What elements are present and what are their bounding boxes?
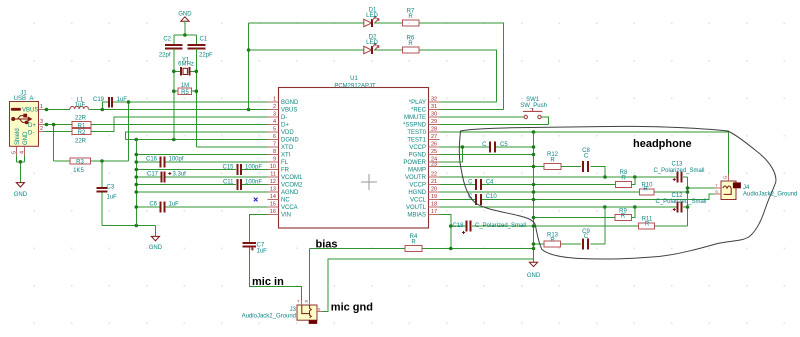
svg-text:D+: D+ bbox=[28, 123, 36, 129]
junction R3 C3 bbox=[100, 159, 104, 163]
wire LED feed vertical bbox=[248, 23, 250, 110]
junction C12 tee bbox=[686, 205, 690, 209]
resistor R5 1M bbox=[174, 83, 197, 96]
svg-text:1uF: 1uF bbox=[107, 195, 118, 201]
svg-text:VCCA: VCCA bbox=[281, 205, 298, 211]
svg-text:J4: J4 bbox=[743, 185, 750, 191]
svg-text:1: 1 bbox=[40, 104, 43, 110]
connector J4 AudioJack2_Ground bbox=[715, 175, 798, 200]
svg-text:22pF: 22pF bbox=[199, 52, 213, 58]
svg-text:BGND: BGND bbox=[281, 100, 299, 106]
capacitor C10 bbox=[468, 194, 497, 205]
svg-text:headphone: headphone bbox=[633, 138, 692, 150]
svg-text:R: R bbox=[621, 213, 626, 219]
svg-text:100pf: 100pf bbox=[169, 157, 184, 163]
svg-text:PCM2912APJT: PCM2912APJT bbox=[334, 84, 376, 90]
svg-text:1: 1 bbox=[273, 97, 276, 103]
wire bottom left gnd row bbox=[102, 226, 155, 237]
svg-text:1K5: 1K5 bbox=[73, 168, 84, 174]
wire VCCP2 C4 R8 row bbox=[440, 177, 635, 185]
svg-text:NC: NC bbox=[281, 198, 290, 204]
svg-text:R: R bbox=[643, 187, 648, 193]
junction TEST0 rail bbox=[532, 130, 536, 134]
resistor R3 1K5 bbox=[70, 158, 91, 174]
capacitor C16 100pf bbox=[146, 157, 184, 168]
svg-text:R: R bbox=[550, 158, 555, 164]
wire FL row C16 bbox=[136, 161, 267, 163]
svg-text:R2: R2 bbox=[78, 130, 86, 136]
svg-text:C_Polarized_Small: C_Polarized_Small bbox=[653, 168, 704, 174]
junction gnd row rail bbox=[135, 224, 139, 228]
J1 USB trident icon bbox=[12, 114, 32, 124]
svg-text:6: 6 bbox=[273, 134, 276, 140]
svg-text:27: 27 bbox=[431, 134, 437, 140]
wire crystal verticals bbox=[174, 48, 268, 147]
wire VBUS row bbox=[44, 109, 267, 111]
capacitor C2 22pf bbox=[159, 37, 183, 59]
ground symbol right bbox=[527, 262, 541, 279]
wire J1 ground join bbox=[17, 156, 25, 183]
wire right ground rail bbox=[533, 132, 535, 262]
svg-text:9: 9 bbox=[273, 157, 276, 163]
junction D+ branch bbox=[52, 123, 56, 127]
svg-text:22R: 22R bbox=[75, 115, 87, 121]
wire R3 net bbox=[54, 160, 129, 162]
svg-text:D+: D+ bbox=[281, 123, 289, 129]
svg-text:18: 18 bbox=[431, 202, 437, 208]
svg-text:FL: FL bbox=[281, 160, 289, 166]
svg-text:TEST1: TEST1 bbox=[407, 138, 426, 144]
svg-text:5: 5 bbox=[273, 127, 276, 133]
wire D1 row bbox=[249, 23, 504, 110]
junction gnd cap row bbox=[183, 33, 187, 37]
svg-text:mic in: mic in bbox=[252, 276, 284, 288]
svg-text:VDD: VDD bbox=[281, 130, 294, 136]
svg-text:MAMP: MAMP bbox=[408, 168, 426, 174]
svg-text:GND: GND bbox=[149, 245, 163, 251]
resistor R2 22R bbox=[72, 128, 91, 144]
resistor R11 bbox=[639, 216, 655, 229]
svg-text:3: 3 bbox=[40, 119, 43, 125]
svg-text:C1: C1 bbox=[200, 37, 208, 43]
junction bias rail bbox=[532, 247, 536, 251]
svg-text:MBIAS: MBIAS bbox=[407, 213, 426, 219]
wire MBIAS down bbox=[440, 215, 451, 249]
junction C18 left bbox=[449, 224, 453, 228]
U1 left pin stubs 1-16 bbox=[268, 102, 279, 215]
junction LED D2 tee bbox=[247, 48, 251, 52]
svg-text:17: 17 bbox=[431, 209, 437, 215]
junction C10 rail bbox=[532, 198, 536, 202]
svg-text:C_Polarized_Small: C_Polarized_Small bbox=[655, 199, 706, 205]
svg-text:J3: J3 bbox=[290, 307, 297, 313]
LED D1 bbox=[364, 7, 379, 26]
svg-text:XTI: XTI bbox=[281, 153, 291, 159]
svg-text:HGND: HGND bbox=[408, 190, 426, 196]
ground symbol crystal top bbox=[178, 12, 192, 22]
svg-text:C5: C5 bbox=[500, 142, 508, 148]
svg-text:32: 32 bbox=[431, 97, 437, 103]
wire PGND row bbox=[440, 154, 534, 156]
wire C18 R11 row bbox=[451, 225, 688, 227]
svg-text:16: 16 bbox=[270, 209, 276, 215]
wire BGND row bbox=[102, 102, 267, 161]
svg-text:TEST0: TEST0 bbox=[407, 130, 426, 136]
svg-text:AGND: AGND bbox=[281, 190, 299, 196]
svg-text:8: 8 bbox=[273, 149, 276, 155]
svg-text:30: 30 bbox=[431, 112, 437, 118]
svg-text:C3: C3 bbox=[107, 185, 115, 191]
svg-text:C16: C16 bbox=[146, 157, 158, 163]
svg-text:*PLAY: *PLAY bbox=[409, 100, 426, 106]
capacitor C4 bbox=[468, 179, 494, 190]
svg-text:2: 2 bbox=[40, 126, 43, 132]
resistor R6 bbox=[402, 35, 419, 53]
svg-text:AudioJack2_Ground: AudioJack2_Ground bbox=[242, 313, 296, 319]
junction VBUS C19 branch bbox=[101, 108, 105, 112]
svg-text:R: R bbox=[621, 176, 626, 182]
capacitor C13 polarized bbox=[653, 161, 704, 182]
wire D- row bbox=[44, 117, 267, 132]
junction VBUS LED rail bbox=[247, 108, 251, 112]
svg-text:SW_Push: SW_Push bbox=[520, 103, 547, 109]
svg-text:S: S bbox=[318, 307, 321, 312]
svg-text:MMUTE: MMUTE bbox=[404, 115, 426, 121]
capacitor C1 22pF bbox=[188, 37, 214, 59]
svg-text:14: 14 bbox=[270, 194, 276, 200]
connector J1 USB_A body bbox=[10, 91, 39, 147]
svg-text:VCCP: VCCP bbox=[409, 145, 426, 151]
junction T tee bbox=[686, 186, 690, 190]
junction R13 rail bbox=[532, 242, 536, 246]
svg-text:U1: U1 bbox=[350, 76, 358, 82]
capacitor C17 3.3uf polarized bbox=[147, 172, 186, 183]
svg-text:S: S bbox=[715, 189, 718, 194]
no connect X pin14 bbox=[254, 198, 258, 202]
svg-text:VCCP: VCCP bbox=[409, 183, 426, 189]
resistor R1 22R bbox=[72, 115, 91, 129]
svg-text:1uF: 1uF bbox=[117, 97, 128, 103]
svg-text:C: C bbox=[584, 154, 589, 160]
svg-text:1M: 1M bbox=[181, 83, 189, 89]
capacitor C18 polarized bbox=[452, 221, 526, 234]
svg-text:C19: C19 bbox=[93, 97, 105, 103]
junction C4 rail bbox=[532, 183, 536, 187]
svg-text:C18: C18 bbox=[452, 223, 464, 229]
svg-text:R: R bbox=[305, 298, 308, 303]
wire TEST0 row to jack G bbox=[440, 132, 729, 175]
svg-text:VCCL: VCCL bbox=[410, 198, 427, 204]
svg-text:100pF: 100pF bbox=[245, 164, 262, 170]
wire VCCP row C5 bbox=[440, 147, 534, 162]
wire mic gnd bbox=[323, 259, 534, 312]
IC U1 body PCM2912APJT bbox=[279, 76, 429, 228]
svg-text:R: R bbox=[550, 237, 555, 243]
svg-text:29: 29 bbox=[431, 119, 437, 125]
U1 right pin numbers bbox=[431, 97, 437, 216]
capacitor C19 bbox=[93, 97, 127, 108]
junction BGND branch bbox=[127, 100, 131, 104]
svg-text:31: 31 bbox=[431, 104, 437, 110]
LED D2 bbox=[364, 34, 379, 53]
junction VOUTL C9 bbox=[603, 205, 607, 209]
svg-text:12: 12 bbox=[270, 179, 276, 185]
wire VCCL C10 row to sleeve bbox=[440, 194, 715, 200]
wire HGND R10 row bbox=[440, 191, 688, 193]
svg-text:C2: C2 bbox=[163, 37, 171, 43]
wire D2 row bbox=[249, 50, 497, 102]
svg-text:VCOM1: VCOM1 bbox=[281, 175, 303, 181]
svg-text:4: 4 bbox=[273, 119, 276, 125]
wire VCOM1 row C17 bbox=[136, 176, 267, 178]
svg-text:21: 21 bbox=[431, 179, 437, 185]
svg-text:LED: LED bbox=[366, 40, 378, 46]
svg-text:G: G bbox=[723, 175, 728, 179]
wire XTI row bbox=[136, 154, 267, 156]
svg-text:7: 7 bbox=[273, 142, 276, 148]
capacitor C9 bbox=[582, 229, 590, 250]
svg-text:R: R bbox=[408, 14, 413, 20]
junction DGND rail bbox=[135, 138, 139, 142]
U1 right pin names bbox=[403, 100, 427, 219]
junction DGND crystal bbox=[172, 138, 176, 142]
wire T S common vertical bbox=[688, 177, 715, 226]
svg-text:GND: GND bbox=[23, 131, 29, 145]
svg-text:C10: C10 bbox=[486, 194, 498, 200]
svg-text:C: C bbox=[468, 179, 473, 185]
svg-text:PGND: PGND bbox=[409, 153, 427, 159]
wire FR row C15 bbox=[136, 169, 267, 171]
wire left decoupling rail bbox=[135, 140, 137, 226]
J1 right pin stubs bbox=[39, 110, 45, 132]
svg-text:C: C bbox=[584, 234, 589, 240]
junction R5 left bbox=[172, 89, 176, 93]
junction C18 rail bbox=[532, 224, 536, 228]
svg-text:R: R bbox=[408, 41, 413, 47]
junction D+ at pin bbox=[45, 123, 49, 127]
junction R10 tee bbox=[686, 190, 690, 194]
J1 VBUS bar icon bbox=[11, 108, 21, 111]
J1 bottom pin stubs 5 4 bbox=[17, 146, 25, 155]
freehand headphone outline bbox=[459, 126, 776, 259]
svg-text:20: 20 bbox=[431, 187, 437, 193]
svg-text:22: 22 bbox=[431, 172, 437, 178]
U1 left pin numbers bbox=[270, 97, 276, 216]
svg-text:10: 10 bbox=[270, 164, 276, 170]
svg-text:VOUTR: VOUTR bbox=[405, 175, 427, 181]
junction crystal left bbox=[172, 70, 176, 74]
resistor R12 bbox=[544, 152, 561, 169]
svg-text:11: 11 bbox=[270, 172, 276, 178]
junction VOUTR R8 bbox=[633, 175, 637, 179]
svg-text:C15: C15 bbox=[222, 164, 234, 170]
svg-text:DGND: DGND bbox=[281, 138, 299, 144]
capacitor C3 1uF bbox=[97, 161, 118, 226]
svg-text:13: 13 bbox=[270, 187, 276, 193]
svg-text:5: 5 bbox=[11, 151, 17, 154]
junction VOUTL R9 bbox=[633, 205, 637, 209]
svg-text:26: 26 bbox=[431, 142, 437, 148]
svg-text:*SSPND: *SSPND bbox=[403, 123, 427, 129]
wire MAMP R12 C8 row bbox=[440, 167, 606, 178]
junction C5 left bbox=[461, 145, 465, 149]
svg-text:VIN: VIN bbox=[281, 213, 291, 219]
wire bias row R4 bbox=[310, 249, 534, 301]
capacitor C8 bbox=[582, 148, 590, 172]
wire VDD row bbox=[126, 132, 268, 140]
wire VOUTR row bbox=[440, 176, 688, 178]
resistor R10 bbox=[639, 182, 654, 195]
resistor R4 bbox=[405, 234, 422, 252]
crystal Y1 6MHz bbox=[174, 58, 197, 76]
svg-text:FR: FR bbox=[281, 168, 290, 174]
svg-text:VBUS: VBUS bbox=[281, 108, 297, 114]
junction PGND rail bbox=[532, 153, 536, 157]
svg-text:R: R bbox=[411, 239, 416, 245]
wire VCOM2 row C11 bbox=[136, 184, 267, 186]
U1 left pin names bbox=[281, 100, 303, 219]
svg-text:R3: R3 bbox=[76, 160, 84, 166]
junction bias MBIAS bbox=[449, 247, 453, 251]
svg-text:R: R bbox=[645, 221, 650, 227]
svg-text:3: 3 bbox=[273, 112, 276, 118]
svg-text:C17: C17 bbox=[147, 172, 159, 178]
capacitor C6 1uF bbox=[149, 202, 179, 213]
svg-text:VOUTL: VOUTL bbox=[406, 205, 427, 211]
svg-text:C11: C11 bbox=[223, 179, 234, 185]
U1 right pin stubs 32-17 bbox=[429, 102, 440, 215]
svg-text:C_Polarized_Small: C_Polarized_Small bbox=[475, 223, 526, 229]
ground symbol left bbox=[149, 236, 163, 251]
junction R5 right bbox=[195, 89, 199, 93]
inductor L1 bbox=[70, 98, 88, 110]
junction crystal right bbox=[195, 70, 199, 74]
junction R12 rail bbox=[532, 165, 536, 169]
svg-text:Shield: Shield bbox=[15, 128, 21, 145]
junction R9 rail bbox=[532, 216, 536, 220]
svg-text:GND: GND bbox=[527, 273, 541, 279]
svg-text:C4: C4 bbox=[486, 179, 494, 185]
svg-text:1uF: 1uF bbox=[169, 202, 180, 208]
wire VOUTL row bbox=[440, 206, 688, 208]
wire gnd to C1 C2 bbox=[174, 21, 197, 44]
svg-text:C: C bbox=[482, 142, 487, 148]
wire AGND row bbox=[136, 191, 267, 193]
capacitor C15 100pF bbox=[222, 164, 262, 175]
svg-text:*REC: *REC bbox=[411, 108, 427, 114]
resistor R13 bbox=[544, 233, 560, 248]
ground symbol USB bbox=[14, 183, 28, 198]
capacitor C5 bbox=[482, 142, 508, 153]
resistor R7 bbox=[402, 8, 419, 26]
resistor R8 bbox=[615, 170, 631, 187]
capacitor C12 polarized bbox=[655, 193, 706, 212]
svg-text:R5: R5 bbox=[181, 90, 189, 96]
svg-text:VCOM2: VCOM2 bbox=[281, 183, 303, 189]
resistor R9 bbox=[615, 208, 632, 220]
svg-text:POWER: POWER bbox=[403, 160, 426, 166]
svg-text:23: 23 bbox=[431, 161, 437, 167]
svg-text:3.3uf: 3.3uf bbox=[173, 172, 187, 178]
svg-text:VBUS: VBUS bbox=[22, 108, 38, 114]
svg-text:LED: LED bbox=[366, 13, 378, 19]
svg-text:C13: C13 bbox=[671, 161, 683, 167]
svg-text:XTO: XTO bbox=[281, 145, 294, 151]
connector J3 AudioJack2_Ground bbox=[242, 298, 323, 324]
svg-text:22R: 22R bbox=[75, 138, 87, 144]
switch SW1 SW_Push bbox=[440, 97, 549, 124]
svg-text:19: 19 bbox=[431, 194, 437, 200]
svg-text:15: 15 bbox=[270, 202, 276, 208]
svg-text:mic gnd: mic gnd bbox=[331, 301, 373, 313]
svg-text:1uF: 1uF bbox=[257, 249, 268, 255]
capacitor C7 1uF polarized bbox=[243, 243, 268, 255]
svg-text:4: 4 bbox=[19, 151, 25, 154]
svg-text:USB_A: USB_A bbox=[14, 96, 34, 102]
svg-text:22pf: 22pf bbox=[159, 52, 171, 58]
junction C5 rail bbox=[532, 145, 536, 149]
wire D+ row bbox=[44, 125, 267, 162]
wire DGND row bbox=[126, 139, 268, 141]
svg-text:6MHz: 6MHz bbox=[178, 62, 194, 68]
svg-text:25: 25 bbox=[431, 149, 437, 155]
svg-text:C6: C6 bbox=[149, 202, 157, 208]
wire R9 row bbox=[534, 207, 635, 218]
wire R13 C9 row bbox=[534, 207, 605, 244]
capacitor C11 100nF bbox=[223, 179, 262, 190]
junction HGND rail bbox=[532, 190, 536, 194]
svg-text:GND: GND bbox=[14, 192, 28, 198]
junction VBUS at pin bbox=[45, 108, 49, 112]
svg-text:2: 2 bbox=[273, 104, 276, 110]
svg-text:D-: D- bbox=[281, 115, 287, 121]
junction J1 gnd bbox=[19, 160, 23, 164]
svg-text:28: 28 bbox=[431, 127, 437, 133]
svg-text:bias: bias bbox=[316, 238, 338, 250]
svg-text:1uF: 1uF bbox=[75, 103, 86, 109]
svg-text:100nF: 100nF bbox=[245, 179, 262, 185]
junction VOUTR C8 bbox=[603, 175, 607, 179]
wire VCCA row C6 bbox=[136, 206, 267, 208]
wire VIN to C7 mic in bbox=[249, 215, 301, 301]
